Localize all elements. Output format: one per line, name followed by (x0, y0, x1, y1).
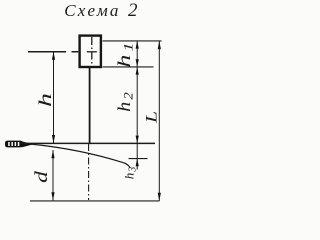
d arrow up (51, 150, 54, 158)
pole axis dash-dot below sight line (88, 144, 90, 200)
svg-text:h: h (36, 93, 56, 107)
h arrow up (52, 52, 55, 60)
svg-text:L: L (143, 111, 161, 124)
dimension h2 (right): line (136, 67, 138, 143)
lamp rectangle (80, 36, 101, 67)
h3 outside arrow below pointing up (136, 159, 138, 170)
vertical dash-dot centerline of lamp (91, 37, 93, 67)
extension line top (lamp top level) (103, 40, 162, 42)
main horizontal sight line (21, 142, 155, 144)
svg-text:d: d (30, 171, 51, 183)
d arrow down (51, 192, 54, 200)
dimension h1 (right): line (136, 41, 138, 67)
dimension h3 (right small): line between levels (136, 143, 138, 158)
axis dash inside lamp (87, 51, 97, 53)
h arrow down (52, 135, 55, 143)
h2 arrow up (136, 67, 139, 75)
dimension L (far right): line (158, 41, 160, 201)
ground extension line bottom (30, 200, 160, 202)
dimension h (left): line (53, 52, 55, 144)
h2 arrow down (136, 136, 139, 144)
pole (89, 67, 91, 144)
h1 arrow down (136, 59, 139, 67)
inclined sight line with hook end (30, 144, 130, 167)
extension line lamp bottom level (103, 66, 154, 68)
L arrow down (158, 193, 161, 201)
dimension d (left lower): line (52, 150, 54, 200)
instrument pointer wedge (22, 141, 34, 147)
instrument body (hatched bar) (5, 141, 23, 148)
h1 arrow up (136, 41, 139, 49)
L arrow up (158, 41, 161, 49)
extension line h3 bottom level (129, 158, 148, 160)
horizontal dash-dot axis (lamp center, to the left) (28, 51, 78, 53)
svg-text:Схема 2: Схема 2 (64, 0, 140, 21)
